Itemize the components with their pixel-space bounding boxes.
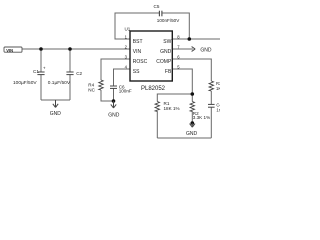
svg-text:COMP: COMP [156,59,172,65]
ground R4/C6 [111,101,116,108]
svg-text:100nF/50V: 100nF/50V [157,18,180,23]
svg-text:3.3K 1%: 3.3K 1% [193,115,210,120]
wire R3 to C4 [210,91,212,104]
wire R2 bottom to ground [191,111,193,123]
wire FB branch to R1 [157,94,192,102]
svg-text:18K 1%: 18K 1% [164,106,180,111]
svg-text:GND: GND [50,111,62,117]
svg-text:PL82052: PL82052 [141,86,166,92]
svg-text:C5: C5 [154,4,160,9]
wire ROSC stub and drop to R4 [101,59,130,80]
svg-text:VIN: VIN [6,48,13,53]
svg-text:GND: GND [186,131,198,137]
wire BST loop: left vertical, top, right vertical to SW node [115,13,159,39]
wire C1-C2 ground rail [41,99,70,101]
svg-text:0.1µF/50V: 0.1µF/50V [48,80,71,86]
wire COMP stub and drop to R3 [172,59,211,81]
wire C2 leg top [69,49,71,72]
svg-text:1nF: 1nF [216,107,220,112]
svg-text:GND: GND [108,112,120,118]
svg-text:+: + [43,66,46,71]
ground arrow pin7 GND [192,47,196,52]
wire VIN main rail [22,48,130,50]
resistor R2 [190,102,194,112]
resistor R3 [209,81,213,91]
capacitor C2 [66,72,73,75]
svg-text:SS: SS [133,69,140,75]
wire SW output [172,38,220,40]
svg-text:100µF/50V: 100µF/50V [13,80,37,86]
wire C1 leg bottom [40,75,42,100]
wire C4 to bottom rail [210,107,212,138]
node junction FB divider [191,92,195,96]
svg-text:U1: U1 [125,27,131,32]
wire R1 bottom to rail [156,111,158,138]
svg-text:GND: GND [160,49,172,55]
svg-text:VIN: VIN [133,49,142,55]
op-amp U1 PL82052 box [130,31,172,81]
wire C1 leg top [40,49,42,72]
svg-text:100nF: 100nF [119,89,132,94]
svg-text:C2: C2 [76,71,82,76]
svg-text:C4: C4 [216,102,220,107]
capacitor C1 (polarized) [37,72,44,75]
svg-text:BST: BST [133,39,143,45]
ground R2 [190,123,195,127]
node junction C1 tap [39,47,43,51]
ground C1/C2 [53,100,58,107]
wire C6 bottom [113,88,115,101]
wire SS stub and drop to C6 [114,69,131,86]
svg-text:C1: C1 [33,69,39,74]
wire pin7 GND stub [172,48,193,50]
svg-text:R4: R4 [88,83,94,88]
node junction C2 tap [68,47,72,51]
resistor R4 [99,80,103,90]
svg-text:R3: R3 [216,81,220,86]
node junction R4/C6 ground [112,99,116,103]
svg-text:ROSC: ROSC [133,59,148,65]
capacitor C4 [208,104,215,107]
svg-text:FB: FB [165,69,172,75]
svg-text:SW: SW [163,39,171,45]
wire C2 leg bottom [69,75,71,100]
svg-text:1K: 1K [216,86,220,91]
svg-text:R1: R1 [164,101,170,106]
capacitor C6 [110,86,117,88]
wire bottom rail R1-C4 [157,137,211,139]
wire R4 bottom [101,90,114,101]
port VIN [4,47,22,53]
node junction R2 ground [191,121,195,125]
wire FB stub and drop to divider [172,69,192,102]
capacitor C5 [159,11,162,17]
resistor R1 [155,102,159,112]
node junction SW/C5 [188,37,192,41]
svg-text:NC: NC [88,88,95,93]
svg-text:GND: GND [200,48,212,54]
